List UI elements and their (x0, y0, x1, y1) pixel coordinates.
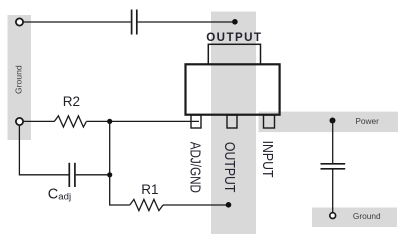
ground bus band (left) (8, 15, 32, 140)
svg-text:Ground: Ground (14, 65, 24, 94)
wire (R1 to output node) (163, 204, 229, 206)
wire (C2 to output node) (138, 21, 235, 23)
wire (T2 to R2) (24, 120, 55, 122)
capacitor Cadj (69, 163, 75, 187)
terminal T3 (ground, right) (330, 213, 336, 219)
terminal T2 (adj terminal, left) (16, 118, 23, 125)
wire (power node down to C1) (332, 121, 334, 164)
resistor R2 (54, 116, 86, 127)
wire (Cadj to node B) (76, 174, 110, 176)
regulator U1 tab (208, 44, 260, 64)
svg-text:ADJ/GND: ADJ/GND (187, 142, 204, 194)
pin 1 (ADJ/GND) (191, 115, 201, 128)
node A (R2 / Cadj junction) (107, 119, 112, 124)
svg-text:R2: R2 (63, 94, 80, 109)
node (power net) (330, 118, 336, 124)
svg-text:Power: Power (355, 116, 379, 126)
svg-text:Ground: Ground (353, 211, 381, 221)
regulator U1 body (186, 64, 280, 114)
power net band (right) (259, 112, 399, 133)
wire (node A down to node B) (109, 121, 111, 174)
terminal T1 (ground, top left) (16, 18, 23, 25)
svg-text:INPUT: INPUT (260, 141, 276, 178)
wire (T1 to C2) (24, 21, 131, 23)
node B (Cadj / R1 junction) (107, 172, 112, 177)
svg-text:OUTPUT: OUTPUT (206, 31, 262, 44)
output net band (vertical) (211, 12, 256, 235)
wire (T2 down and right to Cadj) (19, 126, 68, 175)
wire (C1 down to ground terminal T3) (332, 170, 334, 213)
ground net band (bottom right) (312, 208, 397, 228)
node (output net, bottom) (226, 202, 232, 208)
wire (node B down to R1) (110, 175, 130, 205)
svg-text:R1: R1 (141, 182, 158, 197)
wire (R2 to ADJ/GND pin) (86, 120, 199, 122)
pin 3 (INPUT) (264, 115, 275, 128)
svg-text:Cadj: Cadj (48, 186, 71, 202)
resistor R1 (130, 199, 163, 210)
capacitor C1 (output cap) (321, 164, 346, 169)
node (output net, top) (232, 19, 238, 25)
capacitor C2 (top bypass) (132, 10, 137, 35)
pin 2 (OUTPUT) (227, 115, 237, 128)
svg-text:OUTPUT: OUTPUT (222, 142, 238, 193)
